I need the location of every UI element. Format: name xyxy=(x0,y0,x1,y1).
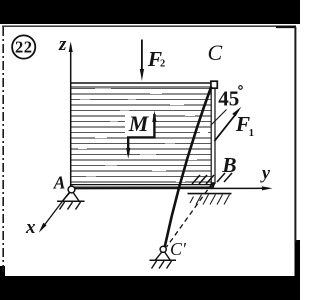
support B lower ground xyxy=(188,194,232,205)
support B upper hatching xyxy=(192,173,232,184)
support C' xyxy=(150,246,177,268)
svg-text:x: x xyxy=(25,217,36,238)
support A xyxy=(57,186,85,209)
problem number 22 badge xyxy=(12,35,35,58)
svg-text:z: z xyxy=(58,34,67,55)
svg-text:M: M xyxy=(128,111,150,136)
dashed line BC' xyxy=(167,183,213,247)
plate right edge xyxy=(211,84,215,187)
svg-text:C: C xyxy=(208,40,223,65)
svg-text:22: 22 xyxy=(15,38,33,57)
moment M xyxy=(126,111,157,159)
svg-text:A: A xyxy=(53,172,66,192)
svg-text:1: 1 xyxy=(249,128,254,139)
svg-text:45: 45 xyxy=(218,87,239,111)
angle 45 deg xyxy=(211,86,243,126)
plate top edge xyxy=(70,83,213,87)
scan frame (decorative) xyxy=(0,0,300,24)
svg-text:B: B xyxy=(221,153,236,177)
plate hatching xyxy=(71,87,211,183)
svg-text:C′: C′ xyxy=(170,239,187,259)
axis z xyxy=(58,34,73,188)
axis x xyxy=(25,190,71,238)
svg-text:y: y xyxy=(260,163,271,183)
pin C xyxy=(211,81,217,88)
junction blob at B xyxy=(211,182,216,189)
rod CC' xyxy=(165,87,212,247)
force F2 xyxy=(140,40,165,81)
plate bottom edge xyxy=(70,185,213,188)
axis y xyxy=(71,163,273,191)
svg-text:2: 2 xyxy=(160,59,165,70)
force F1 xyxy=(215,107,255,141)
